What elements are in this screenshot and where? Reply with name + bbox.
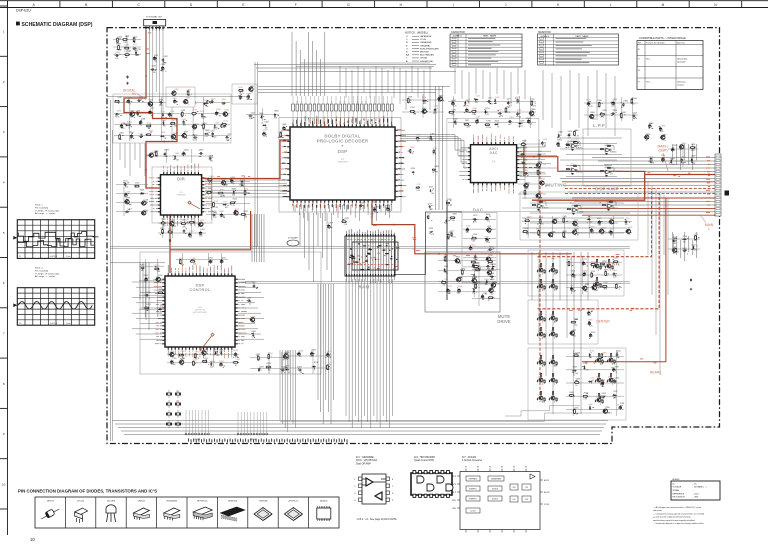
measurement note B <box>35 267 60 279</box>
capacitor C104 <box>690 278 692 281</box>
svg-text:D324: D324 <box>180 351 184 353</box>
resistor R159 <box>266 366 272 368</box>
pad marks <box>435 150 436 154</box>
svg-text:75: 75 <box>331 102 333 104</box>
svg-text:5 ms: 5 ms <box>66 323 70 325</box>
pad marks <box>125 37 127 40</box>
page frame header <box>0 1 768 8</box>
svg-text:Q519: Q519 <box>538 331 542 333</box>
resistor R118 <box>540 355 541 359</box>
pad marks <box>532 101 536 104</box>
svg-text:UN4111: UN4111 <box>138 501 146 503</box>
svg-text:D695: D695 <box>604 269 608 271</box>
resistor R140 <box>573 355 579 357</box>
gray routing box around DIR <box>152 167 212 223</box>
svg-text:D135: D135 <box>649 156 653 158</box>
pad marks <box>485 281 489 284</box>
diode D2 <box>162 58 164 62</box>
svg-text:C436: C436 <box>118 36 122 38</box>
transistor Q47 <box>582 286 587 290</box>
capacitor C4 <box>150 68 154 71</box>
svg-text:P2: P2 <box>477 467 479 469</box>
svg-text:AC range t : cycles: AC range t : cycles <box>35 212 56 215</box>
resistor parts table <box>538 31 619 65</box>
cell wire <box>553 381 555 385</box>
svg-text:47μ: 47μ <box>487 220 490 222</box>
pad marks <box>590 353 592 358</box>
pad marks <box>155 69 157 71</box>
diode D51 <box>549 398 550 401</box>
svg-text:Q911: Q911 <box>231 177 235 179</box>
wire horizontal feeder top <box>296 63 434 67</box>
svg-text:D251: D251 <box>127 121 131 123</box>
pad marks <box>571 396 575 397</box>
pad marks <box>183 102 189 105</box>
pad marks <box>486 216 491 217</box>
svg-text:R969: R969 <box>525 188 529 190</box>
transistor Q6 <box>181 134 186 138</box>
svg-text:P6: P6 <box>525 467 527 469</box>
diode D31 <box>444 268 446 272</box>
svg-text:NJM4560: NJM4560 <box>576 172 583 174</box>
bus verticals above decoder <box>254 32 456 96</box>
diode D42 <box>537 318 538 321</box>
svg-text:Q252: Q252 <box>538 192 542 194</box>
resistor R47 <box>432 169 436 170</box>
resistor R69 <box>539 219 541 225</box>
svg-text:P3: P3 <box>489 467 491 469</box>
pad marks <box>155 58 157 59</box>
transistor Q4 <box>192 125 197 129</box>
pad marks <box>492 266 494 269</box>
pad marks <box>691 246 698 250</box>
transistor Q9 <box>248 87 253 91</box>
svg-text:Q640: Q640 <box>550 315 554 317</box>
svg-text:L: L <box>708 227 710 231</box>
svg-text:47μ: 47μ <box>413 114 416 116</box>
svg-text:0.01: 0.01 <box>568 137 571 139</box>
pad marks <box>633 117 636 119</box>
package 2SC2878 <box>107 501 116 503</box>
svg-text:C455: C455 <box>444 266 448 268</box>
svg-text:D491: D491 <box>510 117 514 119</box>
svg-text:R758: R758 <box>314 362 318 364</box>
svg-text:versions: versions <box>677 83 684 86</box>
IC1 DIR <box>149 164 213 227</box>
svg-text:47μ: 47μ <box>500 116 503 118</box>
svg-text:Q423: Q423 <box>285 365 289 367</box>
svg-text:F: F <box>295 3 297 7</box>
cluster wiring <box>438 255 496 297</box>
svg-text:... GND: ... GND <box>692 497 699 499</box>
resistor R29 <box>241 214 247 216</box>
capacitor C17 <box>215 111 218 116</box>
capacitor C26 <box>173 99 176 104</box>
resistor R143 <box>569 395 575 397</box>
capacitor C33 <box>209 156 212 160</box>
svg-text:IC5: IC5 <box>607 200 610 202</box>
pad marks <box>413 113 416 114</box>
svg-text:90: 90 <box>339 102 341 104</box>
svg-text:— All voltages are measured w: — All voltages are measured with a +DBu/… <box>653 506 702 509</box>
resistor R158 <box>268 354 270 360</box>
capacitor C96 <box>616 352 619 356</box>
svg-text:EUROPEAN/CAPE: EUROPEAN/CAPE <box>420 47 439 50</box>
svg-text:DAC: DAC <box>490 151 498 155</box>
svg-text:R817: R817 <box>439 95 443 97</box>
feedback wire <box>572 206 582 210</box>
capacitor C88 <box>582 261 585 266</box>
svg-text:IC5: IC5 <box>571 164 574 166</box>
capacitor C120 <box>220 259 223 264</box>
capacitor C10 <box>173 102 176 107</box>
svg-text:C141: C141 <box>170 220 174 222</box>
svg-text:— Schematic diagram is subjec: — Schematic diagram is subject to change… <box>653 522 705 525</box>
pad marks <box>171 138 176 139</box>
cluster wiring <box>114 97 230 141</box>
svg-text:IC5: IC5 <box>537 200 540 202</box>
svg-text:R772: R772 <box>489 247 493 249</box>
pad marks <box>141 134 143 136</box>
crystal X1 <box>287 238 299 247</box>
pad marks <box>117 48 122 51</box>
pad marks <box>155 267 159 269</box>
resistor R7 <box>114 100 120 102</box>
svg-text:HD74HC00: HD74HC00 <box>197 501 208 503</box>
svg-text:0.01: 0.01 <box>155 156 158 158</box>
resistor R150 <box>158 292 164 294</box>
svg-text:Q197: Q197 <box>538 359 542 361</box>
pad marks <box>160 104 161 105</box>
capacitor C117 <box>298 369 302 372</box>
transistor Q17 <box>198 222 203 226</box>
connector CB102 to MAIN <box>715 154 729 216</box>
svg-text:47μ: 47μ <box>139 125 142 127</box>
feedback wire <box>605 146 615 150</box>
diode D36 <box>549 270 550 273</box>
transistor Q62 <box>596 378 601 382</box>
capacitor C43 <box>434 108 437 112</box>
pad marks <box>675 251 679 254</box>
diode D43 <box>549 318 550 321</box>
svg-text:47μ: 47μ <box>203 355 206 357</box>
svg-text:P5: P5 <box>513 467 515 469</box>
diode D64 <box>670 160 672 164</box>
resistor R63 <box>539 201 543 202</box>
pad marks <box>264 133 267 135</box>
pad marks <box>536 196 542 199</box>
svg-text:C638: C638 <box>121 122 125 124</box>
capacitor C60 <box>571 149 574 151</box>
capacitor C124 <box>587 101 590 106</box>
svg-text:47μ: 47μ <box>155 61 158 63</box>
wires filter to DIR <box>120 143 145 176</box>
svg-text:C121: C121 <box>487 226 491 228</box>
diode D60 <box>588 381 592 383</box>
svg-text:C682: C682 <box>247 298 251 300</box>
cell wire <box>541 319 543 323</box>
svg-text:Q238: Q238 <box>161 132 165 134</box>
svg-text:U.S.A.: U.S.A. <box>420 38 427 41</box>
resistor R1 <box>117 37 119 43</box>
pad marks <box>530 114 533 116</box>
svg-text:47μ: 47μ <box>193 129 196 131</box>
diode D13 <box>174 155 176 159</box>
pad marks <box>216 127 219 129</box>
net dac-out W6 <box>533 253 572 255</box>
pad marks <box>590 116 593 118</box>
svg-text:Dual OP AMP: Dual OP AMP <box>356 462 371 465</box>
signal arrow <box>145 76 147 79</box>
svg-text:100: 100 <box>173 364 176 366</box>
pad marks <box>621 102 623 107</box>
diode D69 <box>158 308 162 310</box>
svg-text:C960: C960 <box>434 106 438 108</box>
diode D8 <box>214 124 216 128</box>
resistor R83 <box>441 282 447 284</box>
transistor Q15 <box>233 211 238 215</box>
pad marks <box>572 289 576 291</box>
diode D9 <box>160 135 164 137</box>
pad marks <box>135 185 137 187</box>
svg-text:P1: P1 <box>465 467 467 469</box>
resistor R78 <box>444 256 446 262</box>
svg-text:586: 586 <box>555 366 558 368</box>
pad marks <box>573 221 575 224</box>
svg-text:0.01: 0.01 <box>201 118 204 120</box>
svg-text:100: 100 <box>694 250 697 252</box>
cluster wiring <box>139 259 164 317</box>
svg-text:100: 100 <box>125 187 128 189</box>
resistor R105 <box>591 272 593 278</box>
pad marks <box>189 237 192 238</box>
svg-text:New Part: New Part <box>677 42 685 45</box>
diode D25 <box>521 162 525 164</box>
resistor R120 <box>552 355 553 359</box>
pad marks <box>433 108 437 113</box>
ground <box>690 288 692 290</box>
resistor R71 <box>522 231 528 233</box>
svg-text:D852: D852 <box>682 248 686 250</box>
resistor R31 <box>181 223 187 225</box>
diode D27 <box>587 218 591 220</box>
svg-text:D997: D997 <box>487 120 491 122</box>
op-amp IC8 <box>571 208 578 212</box>
decoder pin label band <box>282 118 404 210</box>
svg-text:D650: D650 <box>585 284 589 286</box>
svg-text:- IC3,4 : +6 : See page 23,29: - IC3,4 : +6 : See page 23,29 IC DATA. <box>356 518 398 521</box>
diode D30 <box>429 231 432 233</box>
pad marks <box>430 231 434 234</box>
transistor Q40 <box>538 268 543 272</box>
svg-text:VOLTAGE: VOLTAGE <box>673 486 682 489</box>
cell wire <box>553 363 555 367</box>
capacitor C112 <box>283 354 286 359</box>
pad marks <box>257 356 261 360</box>
pad marks <box>149 103 152 105</box>
resistor R34 <box>167 231 173 233</box>
resistor R35 <box>407 98 409 104</box>
svg-text:CANADIAN: CANADIAN <box>420 41 432 44</box>
connector pin labels <box>706 157 710 213</box>
svg-text:LPF: LPF <box>525 487 528 489</box>
pad marks <box>180 361 184 364</box>
svg-text:YSS910B-F: YSS910B-F <box>337 161 349 163</box>
pad marks <box>170 353 173 355</box>
svg-text:R43: R43 <box>176 391 179 393</box>
pad marks <box>575 229 579 233</box>
pad marks <box>247 98 252 101</box>
svg-text:Q740: Q740 <box>538 315 542 317</box>
transistor Q59 <box>550 396 555 400</box>
resistor R122 <box>540 373 541 377</box>
capacitor C53 <box>508 120 512 123</box>
net mute-rail W13 <box>524 168 540 403</box>
svg-text:R462: R462 <box>252 331 256 333</box>
svg-text:G.: G. <box>406 48 409 50</box>
pad marks <box>575 318 578 321</box>
feedback wire <box>537 202 547 206</box>
svg-text:100: 100 <box>206 106 209 108</box>
signal arrow <box>145 169 147 172</box>
svg-text:607: 607 <box>555 322 558 324</box>
capacitor C74 <box>473 218 477 221</box>
pad marks <box>122 124 126 129</box>
transistor Q44 <box>594 264 599 268</box>
pad marks <box>490 261 493 264</box>
pad marks <box>161 136 167 139</box>
pad marks <box>161 117 167 118</box>
transistor Q32 <box>486 228 491 232</box>
pad marks <box>491 283 494 288</box>
capacitor C8 <box>137 99 141 102</box>
resistor R10 <box>191 113 197 115</box>
svg-text:Q661: Q661 <box>622 112 626 114</box>
pad marks <box>682 238 689 241</box>
pad marks <box>508 101 512 104</box>
transistor Q23 <box>539 181 544 185</box>
svg-text:Quad 2 Input NOR: Quad 2 Input NOR <box>414 459 434 462</box>
wires DSP control left <box>132 282 162 339</box>
ground <box>126 82 129 85</box>
capacitor C45 <box>487 100 491 103</box>
diode D66 <box>682 238 686 240</box>
pad marks <box>438 100 444 103</box>
svg-text:INTERPOL: INTERPOL <box>469 488 477 490</box>
svg-text:R84: R84 <box>176 401 179 403</box>
pad marks <box>191 258 194 261</box>
diode D52 <box>595 360 596 363</box>
page frame left column <box>0 1 8 535</box>
drawing title SCHEMATIC DIAGRAM (DSP) <box>16 22 20 26</box>
capacitor C14 <box>137 112 140 116</box>
svg-text:SCF: SCF <box>513 487 516 489</box>
capacitor C94 <box>588 321 591 326</box>
feedback wire <box>571 142 581 146</box>
svg-text:100: 100 <box>485 284 488 286</box>
pad marks <box>133 41 135 43</box>
svg-text:C783: C783 <box>444 279 448 281</box>
svg-text:I: I <box>453 3 454 7</box>
resistor R124 <box>552 373 553 377</box>
resistor R55 <box>607 145 611 146</box>
svg-text:JAPANESE: JAPANESE <box>420 35 432 38</box>
transistor Q74 <box>589 114 594 118</box>
diode D21 <box>484 110 486 114</box>
diode D47 <box>549 362 550 365</box>
svg-text:D169: D169 <box>125 45 129 47</box>
pad marks <box>163 121 166 126</box>
pad marks <box>146 132 152 135</box>
cluster wiring <box>158 218 206 238</box>
resistor R141 <box>601 353 603 359</box>
svg-text:R205: R205 <box>601 380 605 382</box>
resistor R130 <box>598 353 599 357</box>
transistor Q63 <box>608 378 613 382</box>
pad marks <box>283 354 287 360</box>
resistor R17 <box>146 134 152 136</box>
pad marks <box>602 231 605 232</box>
capacitor C123 <box>387 207 390 212</box>
svg-text:V: 2V/div H: 10msec/div: V: 2V/div H: 10msec/div <box>35 273 60 275</box>
pad marks <box>476 119 479 124</box>
svg-text:Q218: Q218 <box>491 264 495 266</box>
pad marks <box>498 111 501 117</box>
svg-text:C450: C450 <box>471 244 475 246</box>
svg-text:BRITISH: BRITISH <box>420 52 429 54</box>
transistor Q5 <box>171 135 176 139</box>
svg-text:0.01: 0.01 <box>452 237 455 239</box>
svg-text:D629: D629 <box>524 170 528 172</box>
svg-text:100: 100 <box>632 103 635 105</box>
package HD74HC00 <box>197 501 208 503</box>
pad marks <box>413 172 415 175</box>
pad marks <box>203 104 207 107</box>
capacitor C16 <box>168 112 171 117</box>
svg-text:C213: C213 <box>204 349 208 351</box>
pad marks <box>181 354 183 355</box>
pad marks <box>244 214 246 215</box>
resistor R58 <box>600 170 604 171</box>
pad marks <box>427 216 433 220</box>
pad marks <box>262 123 267 126</box>
pad marks <box>539 162 542 166</box>
resistor R134 <box>598 373 599 377</box>
cell wire <box>541 287 543 291</box>
pad marks <box>263 116 266 120</box>
svg-text:D708: D708 <box>614 366 618 368</box>
pad marks <box>193 125 197 127</box>
resistor R16 <box>119 134 121 140</box>
resistor R110 <box>544 317 545 321</box>
pad marks <box>160 279 161 283</box>
resistor R164 <box>598 102 600 108</box>
svg-text:D285: D285 <box>299 351 303 353</box>
diode D76 <box>312 366 316 368</box>
svg-text:Q563: Q563 <box>213 349 217 351</box>
pad marks <box>124 47 126 52</box>
capacitor C67 <box>537 209 540 211</box>
transistor Q2 <box>129 112 134 116</box>
pad marks <box>447 237 449 239</box>
svg-text:Q529: Q529 <box>613 99 617 101</box>
resistor R64 <box>567 208 571 209</box>
svg-text:R985: R985 <box>422 108 426 110</box>
gray routing box around decoder <box>279 118 401 213</box>
pad marks <box>195 354 198 358</box>
svg-text:D671: D671 <box>195 352 199 354</box>
svg-text:C557: C557 <box>613 391 617 393</box>
